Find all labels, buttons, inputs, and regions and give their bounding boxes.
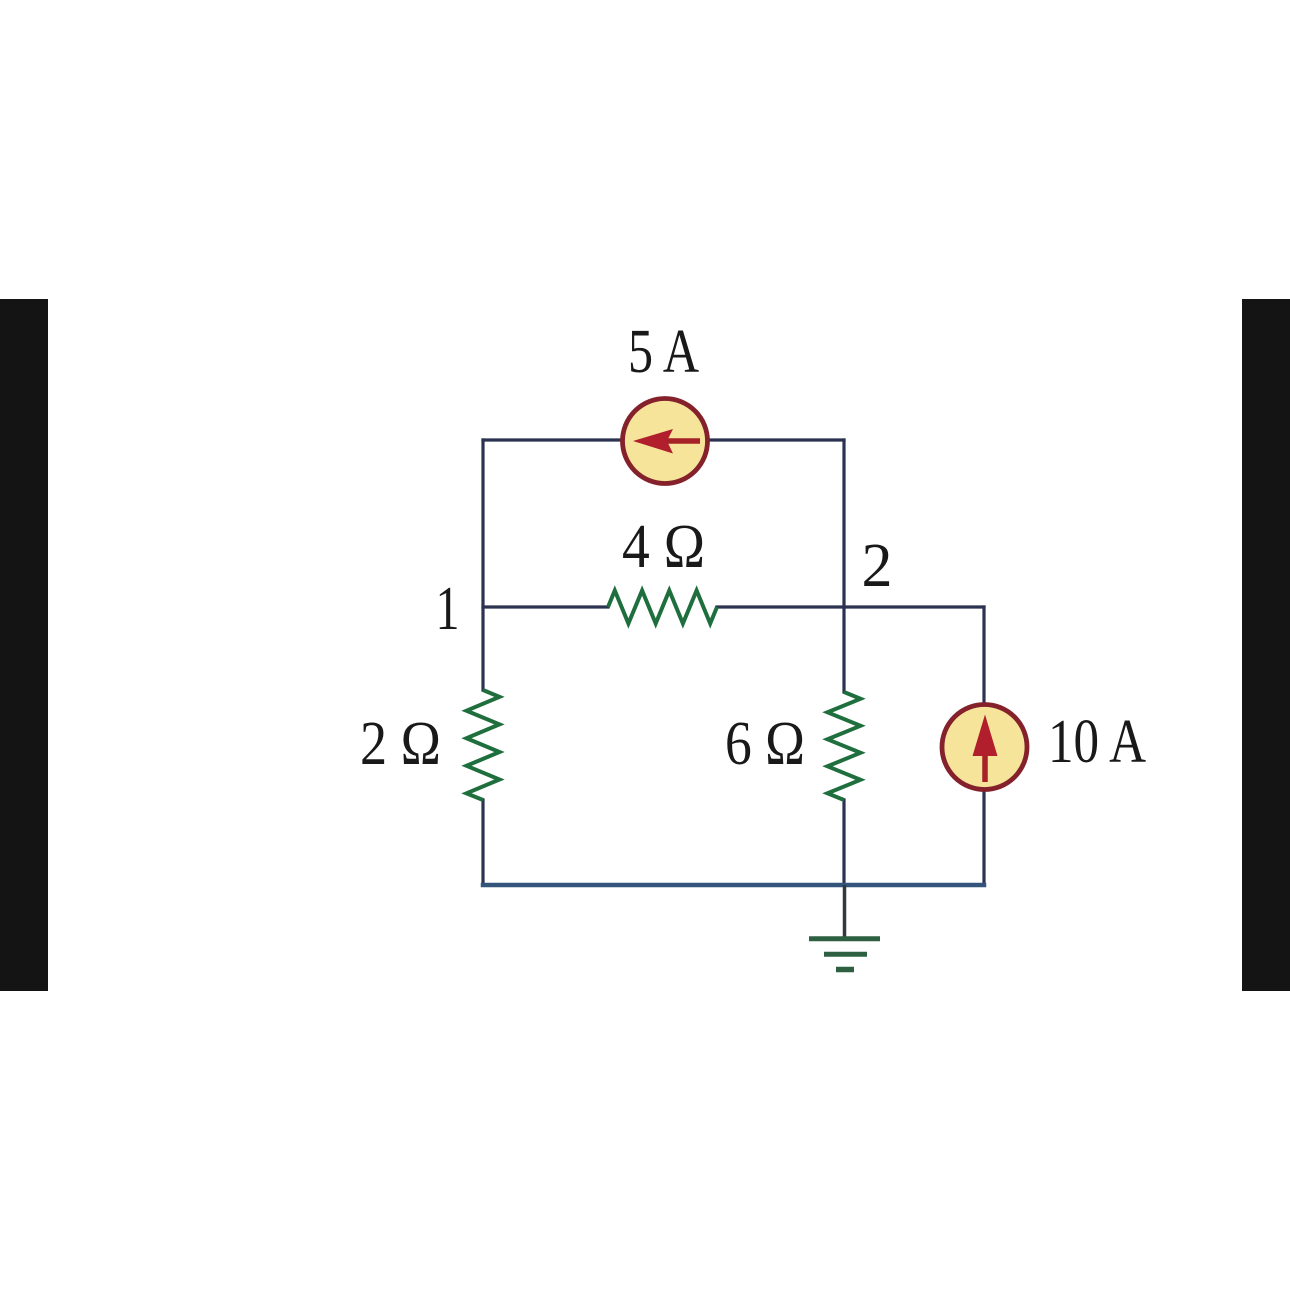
svg-text:1: 1 bbox=[436, 575, 460, 643]
svg-text:6 Ω: 6 Ω bbox=[725, 710, 805, 778]
svg-text:5 A: 5 A bbox=[628, 318, 699, 386]
svg-text:2 Ω: 2 Ω bbox=[360, 710, 441, 778]
svg-text:4 Ω: 4 Ω bbox=[622, 513, 705, 581]
svg-text:10 A: 10 A bbox=[1048, 708, 1146, 776]
svg-text:2: 2 bbox=[862, 532, 893, 600]
